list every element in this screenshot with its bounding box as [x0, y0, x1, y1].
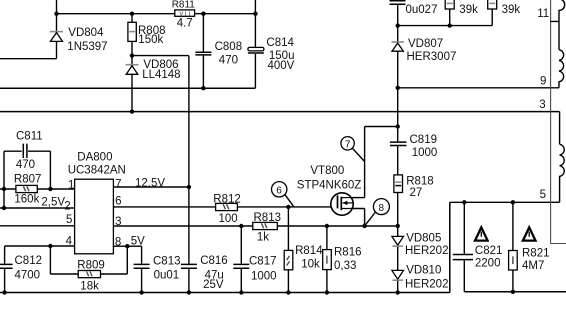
svg-text:18k: 18k	[80, 280, 99, 292]
svg-text:9: 9	[540, 76, 546, 88]
wire pin 9 to transformer	[398, 87, 559, 89]
node source on sense rail	[362, 224, 366, 228]
svg-text:C816: C816	[200, 255, 228, 267]
svg-text:R818: R818	[406, 176, 434, 188]
capacitor C814 (electrolytic)	[248, 0, 264, 88]
label R808	[138, 25, 166, 37]
pin number 11	[537, 8, 549, 20]
node C808 bottom on bus	[201, 86, 205, 90]
node R807 left to pin2	[2, 206, 6, 210]
svg-text:VD805: VD805	[406, 232, 441, 244]
label 5V	[131, 235, 145, 247]
svg-text:C819: C819	[410, 134, 438, 146]
node C812 top / pin4	[48, 244, 52, 248]
node snubber cap	[396, 23, 400, 27]
resistor 39k #1 (top edge)	[445, 0, 454, 26]
node C812 on ground bus	[2, 290, 6, 294]
svg-text:27: 27	[410, 187, 423, 199]
label 10k	[301, 258, 320, 270]
wire source lead	[351, 209, 365, 226]
svg-text:8: 8	[115, 236, 121, 248]
label 400V	[268, 60, 295, 72]
svg-text:R816: R816	[334, 247, 362, 259]
wire snubber link 0u027/39k/39k	[398, 25, 493, 27]
svg-text:VD807: VD807	[408, 38, 443, 50]
label VD807	[408, 38, 443, 50]
wire pin 3 / current sense rail	[113, 225, 397, 227]
label 1000 (C819)	[412, 147, 438, 159]
svg-text:5: 5	[540, 189, 546, 201]
label VT800	[310, 165, 344, 177]
node C808 top	[201, 12, 205, 16]
pin number 5	[66, 214, 72, 226]
label 12,5V	[135, 178, 165, 190]
label C811	[16, 131, 43, 143]
label R807	[14, 174, 42, 186]
svg-text:C821: C821	[475, 245, 503, 257]
wire ground bus right section	[464, 291, 566, 293]
svg-text:1000: 1000	[251, 270, 277, 282]
label R814	[295, 245, 323, 257]
label VD805	[406, 232, 441, 244]
label UC3842AN	[68, 164, 126, 176]
pin number 1	[68, 179, 74, 191]
wire pin 2 to left edge	[0, 207, 75, 209]
wire top rail from VD804 node to C814 riser	[57, 13, 256, 15]
test point circle 6	[272, 182, 294, 207]
pin number 8	[115, 236, 121, 248]
label 470 (C811)	[16, 159, 35, 171]
resistor 39k #2 (top edge)	[488, 0, 497, 26]
node R821 on pin5 rail	[511, 200, 515, 204]
label C814	[266, 37, 294, 49]
node R816 on ground bus	[325, 290, 329, 294]
svg-text:STP4NK60Z: STP4NK60Z	[297, 180, 362, 192]
node R814 on ground bus	[286, 290, 290, 294]
wire gate into transistor	[288, 206, 337, 208]
svg-text:470: 470	[16, 159, 35, 171]
wire pin 7 to VCC feed	[113, 186, 188, 188]
node C817 top	[239, 224, 243, 228]
capacitor C819	[390, 127, 407, 175]
svg-text:R813: R813	[254, 212, 282, 224]
diode VD807	[392, 26, 405, 88]
warning triangle (R821)	[523, 227, 536, 240]
svg-text:100: 100	[219, 213, 238, 225]
resistor R812	[216, 203, 238, 210]
diode VD810	[392, 270, 404, 292]
label C816	[200, 255, 228, 267]
svg-text:39k: 39k	[502, 4, 521, 16]
label STP4NK60Z	[297, 180, 362, 192]
pin number 6	[115, 196, 121, 208]
node VD807 anode / pin9	[396, 86, 400, 90]
capacitor C811	[4, 144, 50, 208]
label 150k	[138, 34, 163, 46]
node C816 on ground bus	[187, 290, 191, 294]
label 27	[410, 187, 423, 199]
svg-text:R807: R807	[14, 174, 42, 186]
node C814 riser on top rail	[253, 12, 257, 16]
wire pin 4	[5, 245, 75, 247]
svg-text:R809: R809	[77, 259, 105, 271]
label 47u	[205, 270, 224, 282]
capacitor C812	[0, 246, 13, 293]
node C817 on ground bus	[239, 290, 243, 294]
wire VD804 anode to left edge	[0, 58, 57, 60]
label 160k	[14, 193, 39, 205]
svg-text:R814: R814	[295, 245, 323, 257]
node C813 on ground bus	[139, 290, 143, 294]
pin number 7	[115, 179, 121, 191]
svg-text:4700: 4700	[15, 269, 41, 281]
svg-text:12,5V: 12,5V	[135, 178, 165, 190]
pin number 5 (transformer)	[540, 189, 546, 201]
resistor R811 (fusible, VII)	[175, 10, 195, 17]
capacitor C821	[453, 202, 473, 291]
svg-text:7: 7	[345, 140, 351, 151]
capacitor C816	[181, 264, 197, 268]
wire ground bus left section	[0, 202, 450, 292]
wire drain branch horizontal	[365, 126, 398, 128]
svg-text:150k: 150k	[138, 34, 163, 46]
wire pin 5 secondary rail	[450, 201, 560, 203]
svg-text:1k: 1k	[257, 231, 269, 243]
pin number 2	[64, 201, 70, 213]
svg-text:0u027: 0u027	[406, 4, 438, 16]
node VD810 on ground bus	[396, 290, 400, 294]
svg-text:470: 470	[219, 54, 238, 66]
svg-text:7: 7	[115, 179, 121, 191]
resistor R814	[284, 207, 293, 293]
svg-text:2: 2	[64, 201, 70, 213]
svg-text:1: 1	[68, 179, 74, 191]
node VD806 anode on bus	[130, 109, 134, 113]
label HER3007	[407, 51, 457, 63]
label 1k	[257, 231, 269, 243]
svg-text:C817: C817	[249, 255, 277, 267]
label 4.7	[177, 17, 193, 29]
svg-text:LL4148: LL4148	[142, 69, 180, 81]
svg-text:3: 3	[539, 99, 545, 111]
pin number 3 (transformer)	[539, 99, 545, 111]
svg-text:VD804: VD804	[68, 27, 104, 39]
node snubber 39k#1	[448, 23, 452, 27]
test point circle 7	[341, 137, 365, 162]
diode VD805	[392, 226, 404, 270]
label R821	[522, 248, 550, 260]
svg-text:11: 11	[537, 8, 549, 20]
svg-text:C814: C814	[266, 37, 294, 49]
label R809	[77, 259, 105, 271]
label C808	[215, 41, 243, 53]
wire pin 5 to left edge	[0, 225, 75, 227]
node R821 on right bus	[511, 290, 515, 294]
label 1N5397	[67, 41, 107, 53]
svg-text:4.7: 4.7	[177, 17, 193, 29]
svg-text:HER202: HER202	[405, 245, 448, 257]
wire bus (rectified +) y=88	[0, 87, 255, 89]
svg-text:1N5397: 1N5397	[67, 41, 107, 53]
pin number 4	[66, 235, 73, 247]
label 0,33	[334, 260, 356, 272]
svg-text:10k: 10k	[301, 258, 320, 270]
node R816 top	[325, 224, 329, 228]
node R807 left	[2, 187, 6, 191]
wire VCC link R808 bottom to vertical feed	[132, 55, 189, 57]
label C812	[15, 255, 43, 267]
wire drain lead	[351, 197, 364, 199]
label R812	[213, 194, 241, 206]
svg-text:6: 6	[115, 196, 121, 208]
wire vertical VCC feed down to C816 and ground	[188, 56, 190, 293]
node R807 right	[48, 187, 52, 191]
wire drain branch vertical	[364, 127, 366, 198]
op-amp U1: PWM controller DA800 UC3842AN	[75, 179, 114, 254]
transformer T1 winding 3-5	[560, 112, 565, 203]
capacitor C813	[134, 246, 150, 292]
svg-text:R821: R821	[522, 248, 550, 260]
label R811	[172, 0, 196, 11]
pin number 3	[115, 216, 121, 228]
label HER202 (VD810)	[405, 278, 448, 290]
label DA800	[77, 151, 112, 163]
svg-text:400V: 400V	[268, 60, 295, 72]
node pin 7 / VCC feed	[187, 185, 191, 189]
label VD806	[143, 59, 178, 71]
label 100	[219, 213, 238, 225]
node gate / R814	[286, 205, 290, 209]
svg-text:0,33: 0,33	[334, 260, 356, 272]
node top rail / VD804	[54, 12, 58, 16]
svg-text:VII: VII	[180, 11, 191, 17]
svg-text:HER3007: HER3007	[407, 51, 457, 63]
label R813	[254, 212, 282, 224]
svg-text:R812: R812	[213, 194, 241, 206]
resistor R813	[253, 222, 277, 229]
transformer T1 winding 11-9	[551, 0, 565, 88]
svg-text:25V: 25V	[203, 279, 224, 291]
label 2,5V	[41, 197, 65, 209]
label C817	[249, 255, 277, 267]
label C813	[153, 255, 181, 267]
warning triangle (C821)	[475, 227, 488, 240]
svg-text:R811: R811	[172, 0, 196, 11]
wire bus pin3 net y=111.6 full width	[0, 111, 560, 113]
label HER202 (VD805)	[405, 245, 448, 257]
resistor R816	[323, 226, 332, 293]
label 470	[219, 54, 238, 66]
svg-text:2200: 2200	[475, 258, 501, 270]
node R808 / VD806 junction	[130, 53, 134, 57]
wire pin 6 to gate	[113, 206, 288, 208]
label LL4148	[142, 69, 180, 81]
svg-text:1000: 1000	[412, 147, 438, 159]
svg-text:160k: 160k	[14, 193, 39, 205]
svg-text:C811: C811	[16, 131, 43, 143]
resistor R807	[16, 185, 37, 192]
svg-text:VD810: VD810	[406, 265, 441, 277]
svg-text:8: 8	[379, 203, 385, 214]
capacitor C808	[195, 14, 211, 89]
label 1000 (C817)	[251, 270, 277, 282]
node pin 8 / R809	[125, 244, 129, 248]
transistor Q1: VT800 STP4NK60Z MOSFET	[331, 193, 353, 215]
svg-text:5: 5	[66, 214, 72, 226]
svg-text:4M7: 4M7	[522, 260, 544, 272]
svg-text:39k: 39k	[459, 4, 478, 16]
svg-text:DA800: DA800	[77, 151, 112, 163]
node drain snubber junction	[396, 124, 400, 128]
svg-text:C808: C808	[215, 41, 243, 53]
wire VD804 branch from top edge	[56, 0, 58, 31]
label C821	[475, 245, 503, 257]
diode VD806	[126, 56, 139, 112]
test point circle 8	[365, 199, 390, 226]
label 150u	[269, 50, 295, 62]
node C821 on pin5 rail	[462, 200, 466, 204]
label 25V	[203, 279, 224, 291]
label 4M7	[522, 260, 544, 272]
svg-text:C813: C813	[153, 255, 181, 267]
label 39k #2	[502, 4, 521, 16]
label 0u027	[406, 4, 438, 16]
label VD804	[68, 27, 104, 39]
svg-text:0u01: 0u01	[154, 270, 180, 282]
label 18k	[80, 280, 99, 292]
label 2200	[475, 258, 501, 270]
label R818	[406, 176, 434, 188]
label C819	[410, 134, 438, 146]
wire pin 8	[113, 245, 141, 247]
svg-text:6: 6	[276, 186, 282, 197]
svg-text:VT800: VT800	[310, 165, 344, 177]
node sense rail / diode string	[396, 224, 400, 228]
wire vertical feedback line along transformer	[551, 0, 566, 244]
resistor R818	[394, 175, 403, 226]
svg-text:2,5V: 2,5V	[41, 197, 65, 209]
wire VD807 node down to drain node	[397, 88, 399, 127]
pin number 9	[540, 76, 546, 88]
diode VD804	[50, 31, 63, 59]
capacitor C817	[233, 226, 249, 293]
label 4700	[15, 269, 41, 281]
resistor R808	[128, 14, 136, 56]
svg-text:5V: 5V	[131, 235, 145, 247]
svg-text:C812: C812	[15, 255, 43, 267]
resistor R809	[50, 246, 127, 278]
label 0u01	[154, 270, 180, 282]
resistor R821	[509, 202, 518, 291]
capacitor 0u027 (snubber, top edge)	[390, 1, 406, 26]
wire pin 1 to left edge	[0, 188, 75, 190]
svg-text:HER202: HER202	[405, 278, 448, 290]
label R816	[334, 247, 362, 259]
label VD810	[406, 265, 441, 277]
svg-text:4: 4	[66, 235, 73, 247]
svg-text:UC3842AN: UC3842AN	[68, 164, 126, 176]
label 39k #1	[459, 4, 478, 16]
node R808 top	[130, 12, 134, 16]
